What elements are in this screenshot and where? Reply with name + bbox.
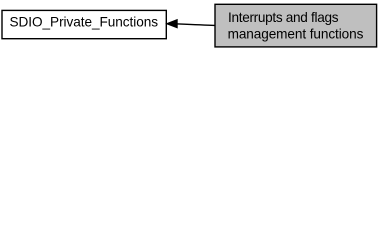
svg-text:SDIO_Private_Functions: SDIO_Private_Functions: [10, 15, 159, 30]
svg-text:Interrupts and flags: Interrupts and flags: [228, 10, 339, 25]
svg-text:management functions: management functions: [228, 27, 364, 42]
